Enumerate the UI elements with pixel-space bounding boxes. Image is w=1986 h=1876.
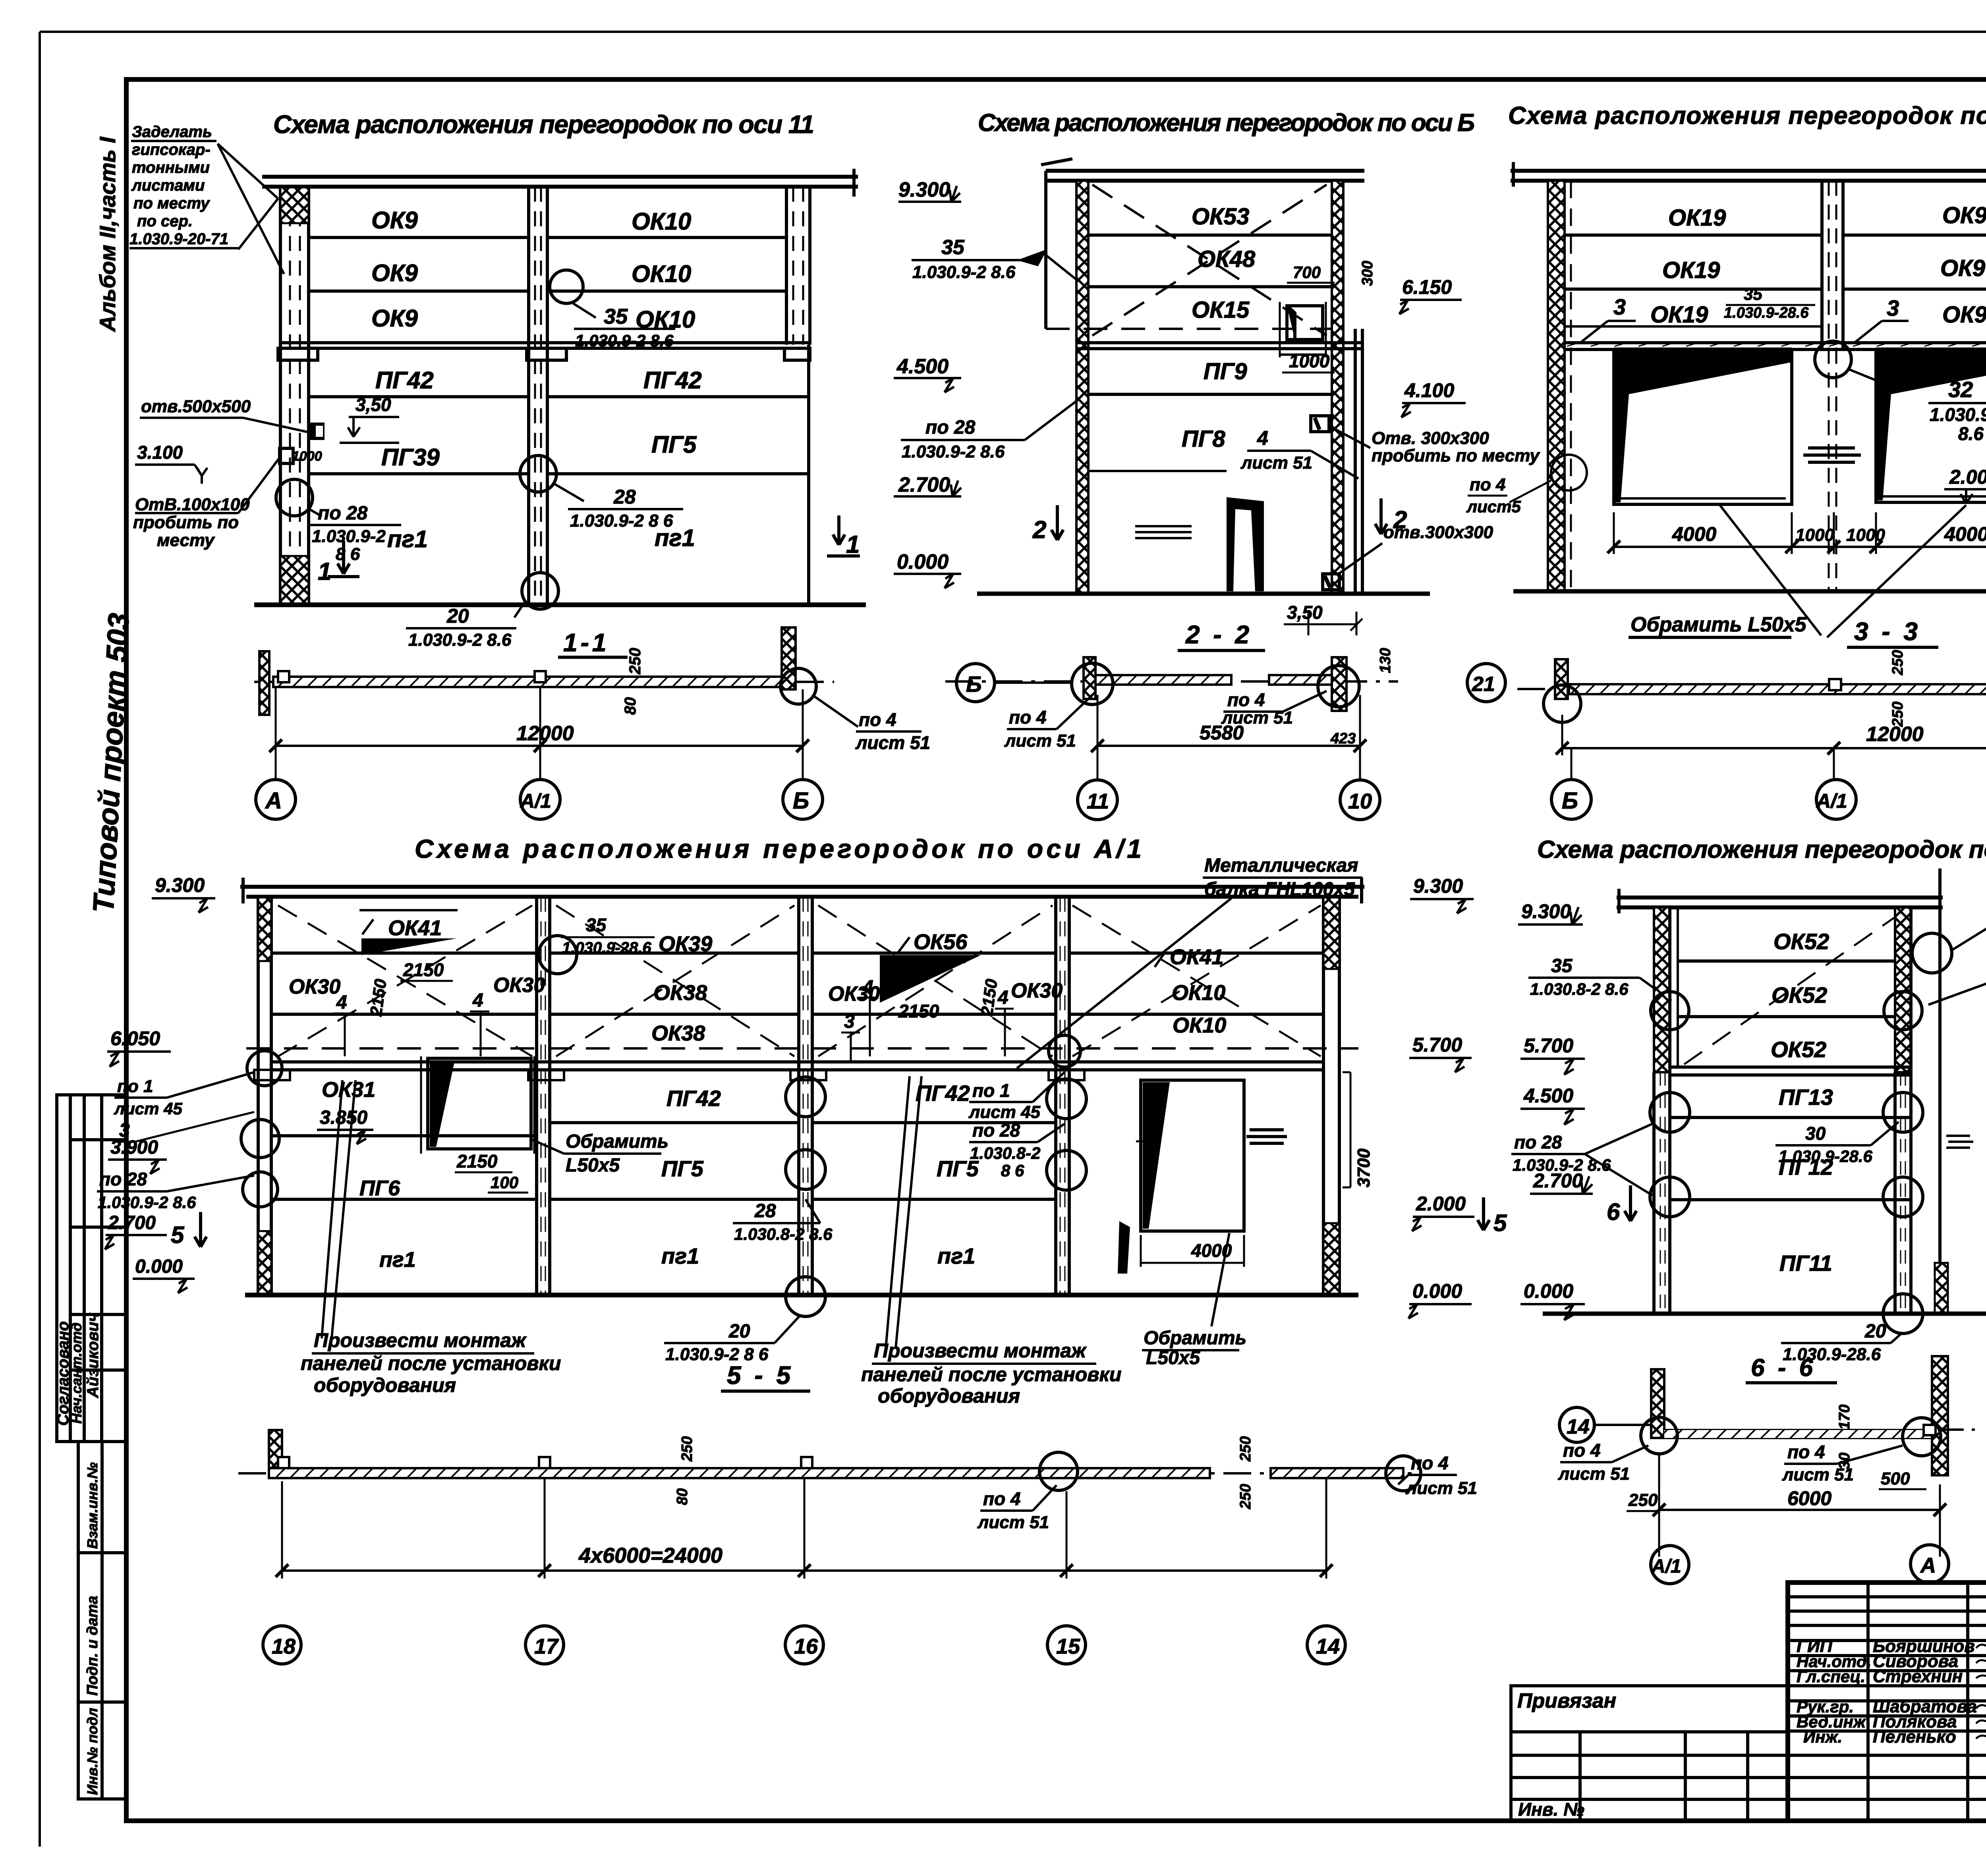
svg-text:80: 80 (674, 1488, 691, 1505)
svg-text:1: 1 (846, 531, 860, 558)
svg-text:3 - 3: 3 - 3 (1854, 617, 1921, 646)
svg-text:250: 250 (679, 1436, 695, 1462)
svg-text:ОК9: ОК9 (1942, 203, 1986, 228)
svg-text:32: 32 (1948, 377, 1973, 402)
svg-text:по 4: по 4 (983, 1488, 1021, 1509)
svg-text:ПГ42: ПГ42 (667, 1086, 721, 1111)
svg-text:1.030.8-2: 1.030.8-2 (970, 1144, 1040, 1162)
svg-text:3.850: 3.850 (320, 1107, 367, 1128)
svg-text:L50х5: L50х5 (1146, 1347, 1200, 1368)
svg-text:ОК48: ОК48 (1198, 246, 1256, 272)
svg-text:ОК56: ОК56 (914, 930, 968, 954)
svg-text:250: 250 (1628, 1490, 1658, 1510)
svg-text:1.030.9-2 8.6: 1.030.9-2 8.6 (575, 331, 674, 350)
svg-text:1.030.9-2 8.6: 1.030.9-2 8.6 (98, 1193, 196, 1212)
svg-text:ОК10: ОК10 (1172, 981, 1225, 1005)
svg-text:ОК30: ОК30 (289, 975, 340, 998)
svg-text:ПГ42: ПГ42 (916, 1081, 970, 1106)
svg-text:ПГ5: ПГ5 (661, 1156, 704, 1181)
svg-text:1.030.9-2: 1.030.9-2 (312, 527, 386, 546)
svg-text:4000: 4000 (1672, 523, 1716, 545)
svg-text:35: 35 (604, 305, 628, 328)
svg-text:250: 250 (1237, 1436, 1254, 1462)
svg-text:1000: 1000 (1289, 351, 1330, 371)
svg-text:ОК41: ОК41 (1170, 945, 1223, 969)
svg-text:ОК19: ОК19 (1650, 302, 1708, 328)
svg-text:отв.300х300: отв.300х300 (1383, 523, 1493, 542)
svg-text:1.030.9-28.6: 1.030.9-28.6 (1724, 305, 1809, 321)
svg-text:5580: 5580 (1200, 722, 1244, 744)
svg-text:3700: 3700 (1354, 1148, 1374, 1187)
svg-text:4: 4 (862, 977, 873, 998)
svg-text:6.150: 6.150 (1402, 276, 1452, 298)
svg-text:ОК19: ОК19 (1668, 205, 1726, 231)
svg-text:лист 51: лист 51 (1004, 731, 1076, 751)
svg-text:2150: 2150 (366, 978, 390, 1017)
svg-text:пробить по: пробить по (133, 513, 239, 532)
svg-text:Схема расположения перегородок: Схема расположения перегородок по оси Б (978, 109, 1475, 137)
svg-text:по 4: по 4 (1227, 689, 1265, 710)
svg-text:пробить по месту: пробить по месту (1372, 446, 1540, 465)
svg-text:9.300: 9.300 (1413, 875, 1463, 897)
svg-text:4х6000=24000: 4х6000=24000 (578, 1544, 723, 1567)
svg-text:21: 21 (1472, 673, 1495, 696)
svg-text:по 28: по 28 (972, 1120, 1020, 1141)
svg-text:1.030.8-2 8.6: 1.030.8-2 8.6 (734, 1225, 833, 1243)
svg-text:Взам.инв.№: Взам.инв.№ (84, 1462, 100, 1549)
svg-text:по 1: по 1 (117, 1077, 153, 1096)
svg-text:оборудования: оборудования (314, 1374, 456, 1396)
svg-text:пг1: пг1 (379, 1248, 416, 1272)
svg-text:Схема расположения перегородок: Схема расположения перегородок по оси 14 (1537, 836, 1986, 863)
svg-text:Гл.спец.: Гл.спец. (1797, 1667, 1865, 1686)
svg-text:ПГ11: ПГ11 (1779, 1251, 1832, 1276)
svg-text:130: 130 (1377, 648, 1394, 673)
svg-text:по 28: по 28 (318, 503, 368, 524)
svg-text:ПГ42: ПГ42 (375, 367, 434, 394)
svg-text:4.500: 4.500 (896, 355, 949, 378)
svg-text:Инв.№ подл: Инв.№ подл (84, 1708, 100, 1795)
svg-text:по 4: по 4 (1411, 1453, 1449, 1473)
svg-text:2: 2 (1032, 516, 1046, 544)
svg-text:6.050: 6.050 (110, 1027, 160, 1050)
svg-text:3,50: 3,50 (1287, 602, 1323, 623)
svg-text:лист 51: лист 51 (1405, 1478, 1477, 1498)
svg-text:лист 51: лист 51 (1558, 1464, 1630, 1484)
svg-text:35: 35 (1551, 955, 1573, 977)
svg-text:2150: 2150 (898, 1001, 939, 1021)
svg-text:ОК10: ОК10 (632, 261, 691, 287)
svg-text:L50х5: L50х5 (566, 1155, 620, 1176)
svg-text:20: 20 (1864, 1321, 1886, 1342)
svg-text:по 4: по 4 (1009, 707, 1047, 728)
svg-text:по 28: по 28 (1514, 1132, 1562, 1152)
svg-text:5 - 5: 5 - 5 (727, 1361, 794, 1390)
svg-text:4: 4 (997, 987, 1008, 1008)
svg-text:Подп. и дата: Подп. и дата (84, 1596, 101, 1696)
svg-text:Нач.сант.отд: Нач.сант.отд (68, 1322, 85, 1424)
svg-text:ПГ39: ПГ39 (381, 444, 440, 471)
svg-text:ОК10: ОК10 (1173, 1013, 1226, 1037)
svg-text:оборудования: оборудования (878, 1385, 1020, 1407)
svg-text:20: 20 (728, 1321, 750, 1342)
svg-text:по 28: по 28 (925, 417, 976, 438)
svg-text:ОК41: ОК41 (388, 916, 442, 940)
svg-text:30: 30 (1805, 1123, 1826, 1144)
svg-text:Заделать: Заделать (132, 123, 212, 141)
svg-text:Произвести монтаж: Произвести монтаж (314, 1329, 527, 1351)
svg-text:ОК30: ОК30 (1011, 979, 1063, 1002)
svg-text:А/1: А/1 (1651, 1556, 1681, 1577)
svg-text:9.300: 9.300 (898, 178, 950, 201)
svg-text:пг1: пг1 (387, 526, 428, 552)
svg-text:Пеленько: Пеленько (1873, 1727, 1956, 1747)
svg-text:2150: 2150 (977, 978, 1001, 1017)
svg-text:35: 35 (1744, 285, 1762, 303)
svg-text:пг1: пг1 (937, 1243, 975, 1268)
svg-text:листами: листами (131, 177, 205, 194)
svg-text:1.030.9-2: 1.030.9-2 (1930, 404, 1986, 425)
svg-text:ОК30: ОК30 (493, 974, 545, 997)
svg-text:по 28: по 28 (99, 1169, 147, 1189)
svg-text:0.000: 0.000 (135, 1256, 183, 1277)
svg-text:35: 35 (941, 236, 965, 259)
svg-text:Отв. 300х300: Отв. 300х300 (1372, 428, 1489, 448)
svg-text:Обрамить: Обрамить (566, 1131, 668, 1152)
svg-text:гипсокар-: гипсокар- (132, 141, 211, 158)
svg-text:6000: 6000 (1787, 1487, 1831, 1509)
svg-text:5.700: 5.700 (1524, 1035, 1573, 1057)
svg-text:по сер.: по сер. (137, 212, 193, 230)
svg-text:ОК19: ОК19 (1662, 257, 1720, 283)
svg-text:ПГ6: ПГ6 (359, 1176, 400, 1200)
svg-text:500: 500 (1881, 1469, 1910, 1488)
svg-text:Инв. №: Инв. № (1518, 1799, 1584, 1820)
svg-text:1000: 1000 (1795, 525, 1834, 545)
svg-text:Произвести монтаж: Произвести монтаж (874, 1339, 1087, 1362)
svg-text:Инж.: Инж. (1803, 1727, 1842, 1746)
svg-text:4: 4 (1257, 427, 1268, 449)
svg-text:ОК9: ОК9 (1942, 302, 1986, 328)
svg-text:0.000: 0.000 (1524, 1280, 1573, 1302)
svg-text:2150: 2150 (456, 1151, 498, 1172)
svg-text:1.030.9-2 8.6: 1.030.9-2 8.6 (912, 262, 1016, 282)
svg-text:Стрехнин: Стрехнин (1873, 1667, 1963, 1686)
svg-text:8 6: 8 6 (336, 544, 360, 564)
svg-text:28: 28 (613, 486, 636, 508)
svg-text:ОК38: ОК38 (653, 981, 707, 1005)
svg-text:ОК52: ОК52 (1772, 982, 1827, 1007)
svg-text:700: 700 (1293, 263, 1321, 282)
svg-text:3.900: 3.900 (110, 1137, 158, 1158)
svg-text:панелей после установки: панелей после установки (861, 1363, 1121, 1386)
svg-text:4: 4 (336, 992, 347, 1013)
svg-text:А/1: А/1 (520, 790, 551, 812)
svg-text:1.030.9-2 8 6: 1.030.9-2 8 6 (570, 511, 673, 531)
svg-text:4.500: 4.500 (1523, 1085, 1573, 1107)
svg-text:1.030.9-20-71: 1.030.9-20-71 (129, 230, 228, 248)
svg-text:лист 51: лист 51 (977, 1513, 1049, 1532)
svg-text:ОК53: ОК53 (1192, 204, 1249, 230)
svg-text:А: А (1920, 1554, 1936, 1577)
svg-text:панелей после установки: панелей после установки (301, 1352, 561, 1374)
svg-text:ПГ9: ПГ9 (1204, 359, 1247, 384)
svg-text:250: 250 (1237, 1484, 1254, 1509)
svg-text:ОК39: ОК39 (659, 932, 712, 956)
svg-text:3.100: 3.100 (137, 442, 183, 463)
svg-text:0.000: 0.000 (897, 550, 949, 573)
svg-text:А: А (265, 788, 282, 814)
svg-text:16: 16 (794, 1635, 818, 1658)
svg-text:5: 5 (171, 1222, 185, 1248)
svg-text:8.6: 8.6 (1958, 423, 1984, 444)
svg-text:лист 51: лист 51 (855, 732, 930, 753)
svg-text:300: 300 (1359, 261, 1376, 286)
svg-text:ОК9: ОК9 (371, 260, 418, 286)
svg-text:ОК9: ОК9 (371, 207, 418, 234)
svg-text:лист 45: лист 45 (968, 1102, 1041, 1122)
svg-text:ПГ42: ПГ42 (643, 367, 702, 394)
svg-text:1.030.9-2 8.6: 1.030.9-2 8.6 (902, 442, 1005, 461)
svg-text:Схема расположения перегородок: Схема расположения перегородок по оси А/… (415, 834, 1142, 863)
svg-text:по 1: по 1 (972, 1080, 1010, 1101)
svg-text:3: 3 (1887, 295, 1899, 320)
svg-text:1000: 1000 (1846, 525, 1885, 545)
svg-text:ОК31: ОК31 (322, 1078, 375, 1102)
svg-text:5: 5 (1493, 1210, 1507, 1236)
svg-text:ПГ13: ПГ13 (1779, 1085, 1833, 1110)
svg-text:2 - 2: 2 - 2 (1185, 620, 1252, 649)
svg-text:28: 28 (754, 1200, 776, 1222)
svg-text:Привязан: Привязан (1517, 1689, 1616, 1712)
svg-text:лист 51: лист 51 (1240, 453, 1312, 473)
svg-text:2.700: 2.700 (108, 1212, 156, 1233)
svg-text:Б: Б (966, 672, 982, 697)
svg-text:1.030.9-2 8.6: 1.030.9-2 8.6 (408, 630, 512, 650)
svg-text:А/1: А/1 (1816, 790, 1847, 812)
svg-text:Схема расположения перегородок: Схема расположения перегородок по оси 21 (1508, 102, 1986, 129)
svg-text:250: 250 (626, 648, 644, 675)
svg-text:Металлическая: Металлическая (1204, 855, 1358, 876)
svg-text:1.030.8-2 8.6: 1.030.8-2 8.6 (1530, 980, 1629, 998)
svg-text:месту: месту (157, 531, 215, 550)
svg-text:20: 20 (446, 605, 469, 627)
svg-text:пг1: пг1 (661, 1243, 699, 1268)
svg-text:1: 1 (318, 558, 331, 585)
svg-text:18: 18 (272, 1635, 296, 1658)
svg-text:Обрамить: Обрамить (1144, 1328, 1246, 1349)
svg-text:5.700: 5.700 (1412, 1034, 1462, 1056)
svg-text:Айзикович: Айзикович (84, 1312, 102, 1398)
svg-text:тонными: тонными (132, 159, 210, 176)
svg-text:17: 17 (534, 1635, 559, 1658)
svg-text:по месту: по месту (133, 195, 210, 212)
svg-text:ПГ8: ПГ8 (1182, 426, 1225, 452)
svg-text:8 6: 8 6 (1001, 1161, 1024, 1180)
svg-text:6: 6 (1607, 1199, 1620, 1225)
svg-text:ОК9: ОК9 (1940, 255, 1985, 281)
svg-text:12000: 12000 (1866, 723, 1924, 746)
svg-text:4.100: 4.100 (1404, 379, 1454, 401)
svg-text:14: 14 (1567, 1415, 1590, 1438)
svg-text:по 4: по 4 (859, 709, 896, 730)
svg-text:2150: 2150 (403, 959, 444, 980)
svg-text:ОК9: ОК9 (371, 305, 418, 332)
svg-text:4000: 4000 (1944, 523, 1986, 545)
svg-text:4: 4 (472, 990, 483, 1011)
svg-text:423: 423 (1330, 730, 1356, 747)
svg-text:лист 45: лист 45 (114, 1099, 183, 1118)
svg-text:Б: Б (793, 788, 809, 814)
svg-text:0.000: 0.000 (1412, 1280, 1462, 1302)
svg-text:80: 80 (622, 697, 639, 715)
svg-text:10: 10 (1348, 789, 1372, 813)
svg-text:12000: 12000 (516, 722, 574, 745)
svg-text:ОК15: ОК15 (1192, 297, 1250, 323)
svg-text:по 4: по 4 (1787, 1442, 1825, 1462)
svg-text:Альбом II,часть I: Альбом II,часть I (95, 136, 120, 332)
svg-text:Обрамить L50х5: Обрамить L50х5 (1631, 613, 1807, 636)
svg-text:1-1: 1-1 (563, 628, 610, 657)
svg-text:9.300: 9.300 (1521, 900, 1571, 923)
svg-text:100: 100 (491, 1173, 518, 1192)
svg-text:35: 35 (586, 915, 607, 935)
svg-text:ПГ5: ПГ5 (937, 1156, 979, 1181)
svg-text:ОтВ.100х100: ОтВ.100х100 (135, 495, 250, 514)
svg-text:ОК10: ОК10 (632, 208, 691, 235)
svg-text:2.000: 2.000 (1949, 466, 1986, 488)
svg-text:отв.500х500: отв.500х500 (141, 397, 251, 416)
svg-text:Схема расположения перегородок: Схема расположения перегородок по оси 11 (273, 110, 814, 139)
svg-text:3: 3 (844, 1011, 855, 1032)
svg-text:ОК38: ОК38 (651, 1021, 705, 1045)
svg-text:3: 3 (1613, 294, 1626, 319)
svg-text:ПГ5: ПГ5 (651, 431, 697, 458)
svg-text:2.700: 2.700 (898, 473, 950, 496)
svg-text:2.700: 2.700 (1533, 1170, 1583, 1192)
svg-text:2.000: 2.000 (1416, 1193, 1466, 1215)
svg-text:250: 250 (1889, 650, 1906, 676)
svg-text:14: 14 (1316, 1635, 1340, 1658)
svg-text:1000: 1000 (292, 449, 322, 464)
svg-text:15: 15 (1056, 1635, 1080, 1658)
svg-text:11: 11 (1087, 789, 1109, 813)
svg-text:3,50: 3,50 (355, 394, 391, 415)
svg-text:170: 170 (1836, 1405, 1853, 1430)
svg-text:9.300: 9.300 (155, 874, 205, 896)
svg-text:6 - 6: 6 - 6 (1751, 1354, 1816, 1382)
svg-text:по 4: по 4 (1563, 1440, 1601, 1461)
svg-text:1.030.9-28.6: 1.030.9-28.6 (1779, 1147, 1873, 1166)
svg-text:по 4: по 4 (1470, 475, 1505, 494)
svg-text:ОК52: ОК52 (1771, 1037, 1826, 1062)
svg-text:Б: Б (1562, 788, 1578, 814)
svg-text:30: 30 (1836, 1453, 1853, 1469)
svg-text:ОК52: ОК52 (1773, 929, 1829, 954)
